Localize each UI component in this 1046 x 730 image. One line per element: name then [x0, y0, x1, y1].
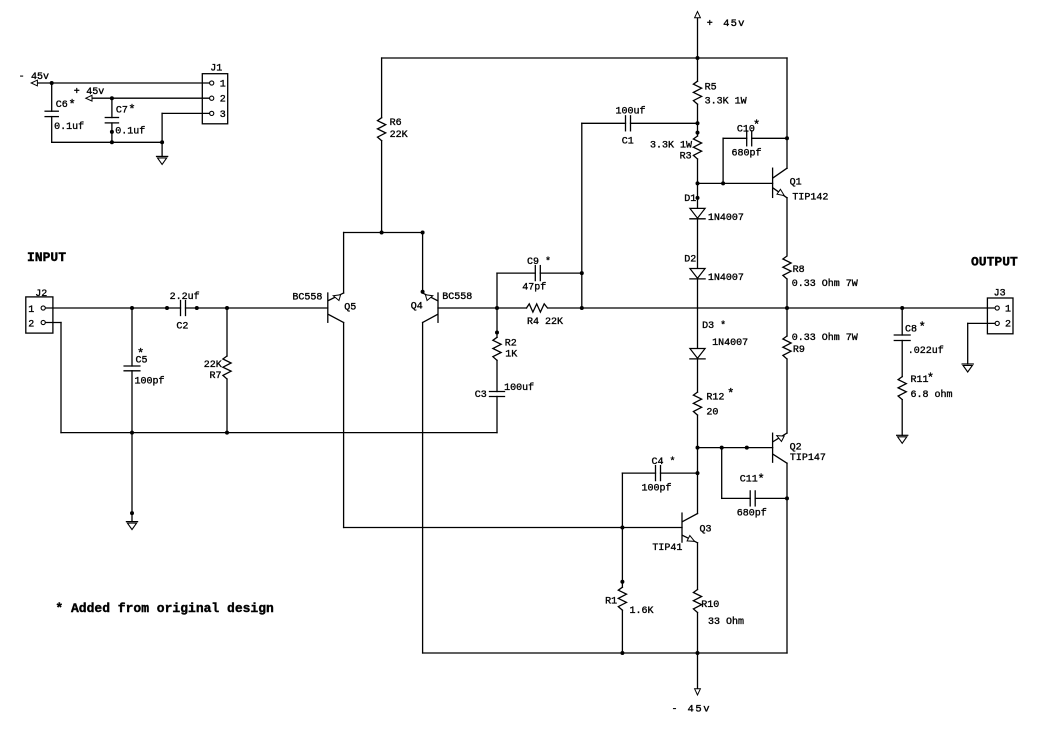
svg-text:TIP147: TIP147 [790, 453, 826, 464]
svg-text:R9: R9 [793, 345, 805, 356]
svg-text:100uf: 100uf [504, 382, 534, 394]
svg-text:22K: 22K [204, 360, 222, 371]
svg-text:+: + [707, 19, 713, 30]
svg-text:Q1: Q1 [790, 177, 802, 188]
svg-text:*: * [128, 103, 135, 117]
svg-text:C1: C1 [622, 137, 634, 148]
svg-text:.022uf: .022uf [908, 345, 944, 357]
svg-text:1: 1 [220, 79, 226, 90]
svg-text:6.8 ohm: 6.8 ohm [911, 389, 953, 401]
svg-text:2: 2 [28, 319, 34, 330]
svg-text:+: + [74, 87, 80, 98]
svg-text:0.33 Ohm 7W: 0.33 Ohm 7W [792, 332, 858, 344]
svg-text:0.33 Ohm 7W: 0.33 Ohm 7W [792, 278, 858, 290]
svg-text:1K: 1K [505, 349, 517, 360]
svg-text:Q5: Q5 [344, 303, 356, 314]
svg-text:Q4: Q4 [411, 302, 423, 313]
svg-text:BC558: BC558 [292, 292, 322, 303]
svg-text:3.3K 1W: 3.3K 1W [650, 140, 692, 151]
svg-text:45v: 45v [31, 72, 49, 83]
svg-text:R7: R7 [210, 371, 222, 382]
svg-text:C3: C3 [475, 390, 487, 401]
svg-text:C11: C11 [740, 475, 758, 486]
svg-text:1N4007: 1N4007 [708, 213, 744, 224]
svg-text:C8: C8 [905, 324, 917, 335]
svg-text:680pf: 680pf [732, 148, 762, 160]
svg-text:680pf: 680pf [737, 507, 767, 519]
svg-text:D1: D1 [684, 194, 696, 205]
svg-text:*: * [927, 371, 934, 385]
svg-text:100uf: 100uf [616, 106, 646, 118]
svg-text:R3: R3 [680, 151, 692, 162]
svg-text:TIP142: TIP142 [792, 192, 828, 203]
svg-text:R5: R5 [705, 83, 717, 94]
svg-text:22K: 22K [390, 130, 408, 141]
svg-text:2: 2 [220, 95, 226, 106]
svg-text:*: * [727, 387, 734, 401]
svg-text:2: 2 [1005, 319, 1011, 330]
svg-text:0.1uf: 0.1uf [115, 126, 145, 138]
svg-text:D2: D2 [684, 255, 696, 266]
svg-text:45v: 45v [688, 703, 712, 715]
svg-text:33 Ohm: 33 Ohm [708, 616, 744, 628]
svg-text:Q3: Q3 [700, 525, 712, 536]
svg-text:R8: R8 [793, 265, 805, 276]
svg-text:J1: J1 [210, 64, 222, 75]
svg-text:C9 *: C9 * [527, 256, 551, 268]
svg-text:1: 1 [1005, 304, 1011, 315]
svg-text:100pf: 100pf [135, 375, 165, 387]
svg-text:3: 3 [220, 110, 226, 121]
svg-text:47pf: 47pf [522, 281, 546, 293]
svg-text:-: - [672, 704, 678, 715]
svg-text:C5: C5 [136, 356, 148, 367]
svg-text:R12: R12 [706, 393, 724, 404]
svg-text:R1: R1 [605, 596, 617, 607]
svg-text:INPUT: INPUT [27, 250, 66, 265]
svg-text:R2: R2 [505, 338, 517, 349]
svg-text:0.1uf: 0.1uf [54, 121, 84, 133]
svg-text:BC558: BC558 [442, 292, 472, 303]
svg-text:R11: R11 [911, 375, 929, 386]
svg-text:*: * [753, 119, 760, 133]
svg-text:20: 20 [706, 408, 718, 419]
svg-text:J3: J3 [994, 289, 1006, 300]
svg-text:J2: J2 [35, 289, 47, 300]
svg-text:OUTPUT: OUTPUT [971, 255, 1018, 270]
svg-text:45v: 45v [723, 18, 746, 30]
svg-text:3.3K 1W: 3.3K 1W [705, 97, 747, 108]
svg-text:1.6K: 1.6K [630, 606, 654, 617]
svg-text:TIP41: TIP41 [652, 543, 682, 554]
svg-text:1: 1 [28, 305, 34, 316]
svg-text:D3 *: D3 * [702, 320, 726, 332]
svg-text:100pf: 100pf [642, 482, 672, 494]
svg-text:* Added from original design: * Added from original design [55, 601, 274, 616]
svg-text:R6: R6 [390, 118, 402, 129]
svg-text:*: * [758, 472, 765, 486]
svg-text:C4 *: C4 * [652, 456, 676, 468]
svg-text:R4 22K: R4 22K [527, 317, 563, 328]
svg-text:C6: C6 [56, 100, 68, 111]
svg-text:C7: C7 [116, 105, 128, 116]
svg-text:C2: C2 [176, 322, 188, 333]
svg-text:*: * [69, 98, 76, 112]
svg-text:R10: R10 [701, 600, 719, 611]
svg-text:Q2: Q2 [790, 442, 802, 453]
svg-text:1N4007: 1N4007 [712, 338, 748, 349]
svg-text:45v: 45v [86, 87, 104, 98]
svg-text:-: - [19, 72, 25, 83]
svg-text:2.2uf: 2.2uf [170, 291, 200, 303]
svg-text:1N4007: 1N4007 [708, 273, 744, 284]
svg-text:*: * [919, 321, 926, 335]
